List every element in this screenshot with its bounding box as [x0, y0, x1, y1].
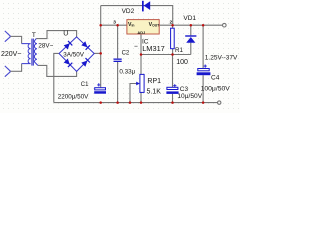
svg-text:100μ/50V: 100μ/50V	[201, 85, 231, 92]
wire RP1 wiper	[130, 84, 137, 103]
svg-text:U: U	[63, 31, 68, 38]
pin number 1 dash	[134, 46, 137, 47]
wire VD2 bypass top	[101, 6, 173, 26]
potentiometer RP1	[140, 74, 144, 92]
node R1 top / VD2	[171, 24, 174, 27]
bridge diode lower-left	[64, 59, 70, 65]
AC terminal chevron upper	[5, 31, 11, 42]
svg-text:VD1: VD1	[183, 15, 196, 22]
node C3 ground	[171, 101, 174, 104]
terminal output -	[218, 101, 221, 104]
svg-text:LM317: LM317	[142, 44, 165, 53]
svg-text:C2: C2	[122, 51, 130, 57]
wire main plus column	[100, 6, 102, 88]
svg-text:C4: C4	[211, 74, 220, 81]
svg-text:C3: C3	[180, 86, 189, 93]
capacitor C2	[114, 59, 122, 63]
svg-text:2200μ/50V: 2200μ/50V	[58, 94, 89, 101]
svg-text:Vin: Vin	[128, 22, 134, 28]
wire secondary bottom lead	[38, 65, 77, 76]
svg-text:3A/50V: 3A/50V	[63, 51, 84, 58]
transformer T primary coil	[22, 39, 38, 66]
wire primary bottom drop	[21, 64, 23, 72]
wire regulator output	[159, 24, 222, 26]
wire ADJ net horizontal	[141, 54, 191, 56]
svg-text:3: 3	[113, 20, 116, 26]
AC terminal chevron lower	[5, 66, 11, 77]
wire VD1 leads	[190, 25, 192, 54]
capacitor C3	[166, 84, 178, 94]
node RP1 ground	[140, 101, 143, 104]
svg-text:5.1K: 5.1K	[147, 89, 162, 96]
node C2 top	[116, 24, 119, 27]
wire C4 leads	[202, 25, 204, 102]
svg-text:1.25V--37V: 1.25V--37V	[205, 54, 238, 61]
capacitor C1	[94, 83, 106, 93]
svg-text:VOUT: VOUT	[149, 22, 161, 28]
wire regulator input	[101, 24, 127, 26]
wire C2 column	[117, 25, 119, 102]
bridge diode upper-left	[64, 43, 70, 49]
node C4 ground	[202, 101, 205, 104]
resistor R1	[171, 28, 175, 49]
node C1 ground	[99, 101, 102, 104]
node VD1 top	[190, 24, 193, 27]
svg-text:ADJ: ADJ	[137, 30, 145, 35]
diode VD2	[142, 1, 150, 12]
node ADJ pin	[140, 53, 143, 56]
wire C3 leads	[172, 55, 174, 103]
wire R1 leads	[172, 25, 174, 54]
svg-text:RP1: RP1	[147, 78, 161, 85]
diode VD1	[185, 35, 196, 42]
wire primary top drop	[21, 36, 23, 44]
svg-text:VD2: VD2	[122, 8, 135, 15]
node wiper ground	[129, 101, 132, 104]
node C4 top	[202, 24, 205, 27]
svg-text:100: 100	[176, 59, 188, 66]
wire ADJ pin column	[140, 34, 142, 102]
svg-text:220V~: 220V~	[1, 51, 21, 58]
node R1 bottom	[171, 53, 174, 56]
wire AC input lower lead	[10, 70, 22, 72]
node C2 ground	[116, 101, 119, 104]
junction dots	[99, 24, 204, 104]
transformer T core	[32, 39, 33, 66]
capacitor C4	[197, 65, 211, 76]
node input tee	[99, 24, 102, 27]
svg-text:C1: C1	[81, 82, 89, 88]
transformer T secondary coil	[34, 39, 37, 66]
wire ground rail	[54, 102, 218, 104]
svg-text:T: T	[32, 32, 36, 39]
wire AC input upper lead	[10, 35, 22, 37]
wire bridge minus to ground rail	[54, 53, 59, 102]
svg-text:R1: R1	[175, 47, 184, 54]
svg-text:0.33μ: 0.33μ	[119, 69, 135, 76]
svg-text:10μ/50V: 10μ/50V	[177, 93, 202, 100]
wire bridge plus to main column	[94, 52, 100, 54]
IC U1 LM317 box	[127, 20, 159, 34]
terminal output +	[223, 23, 227, 27]
bridge diode upper-right	[81, 41, 87, 47]
bridge U diamond edges	[59, 37, 94, 72]
svg-text:28V~: 28V~	[38, 43, 53, 50]
node bridge plus	[99, 52, 102, 55]
potentiometer RP1 wiper arrow	[136, 82, 140, 86]
wire secondary top lead	[36, 31, 76, 39]
bridge diode lower-right	[81, 61, 87, 67]
